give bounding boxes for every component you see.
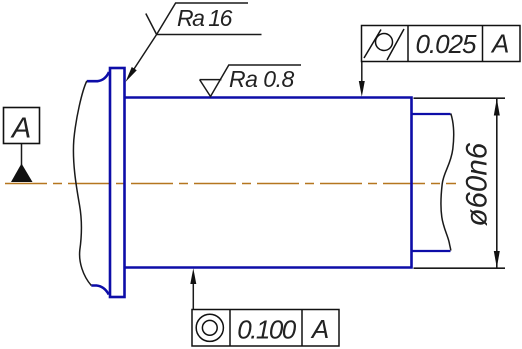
svg-text:0.025: 0.025	[415, 29, 477, 59]
svg-text:0.100: 0.100	[237, 315, 297, 345]
svg-text:A: A	[310, 314, 329, 344]
svg-text:ø60n6: ø60n6	[461, 142, 494, 226]
svg-text:A: A	[490, 29, 509, 59]
svg-text:A: A	[10, 113, 31, 145]
svg-text:Ra 0.8: Ra 0.8	[229, 66, 294, 92]
svg-text:Ra 16: Ra 16	[177, 5, 233, 31]
